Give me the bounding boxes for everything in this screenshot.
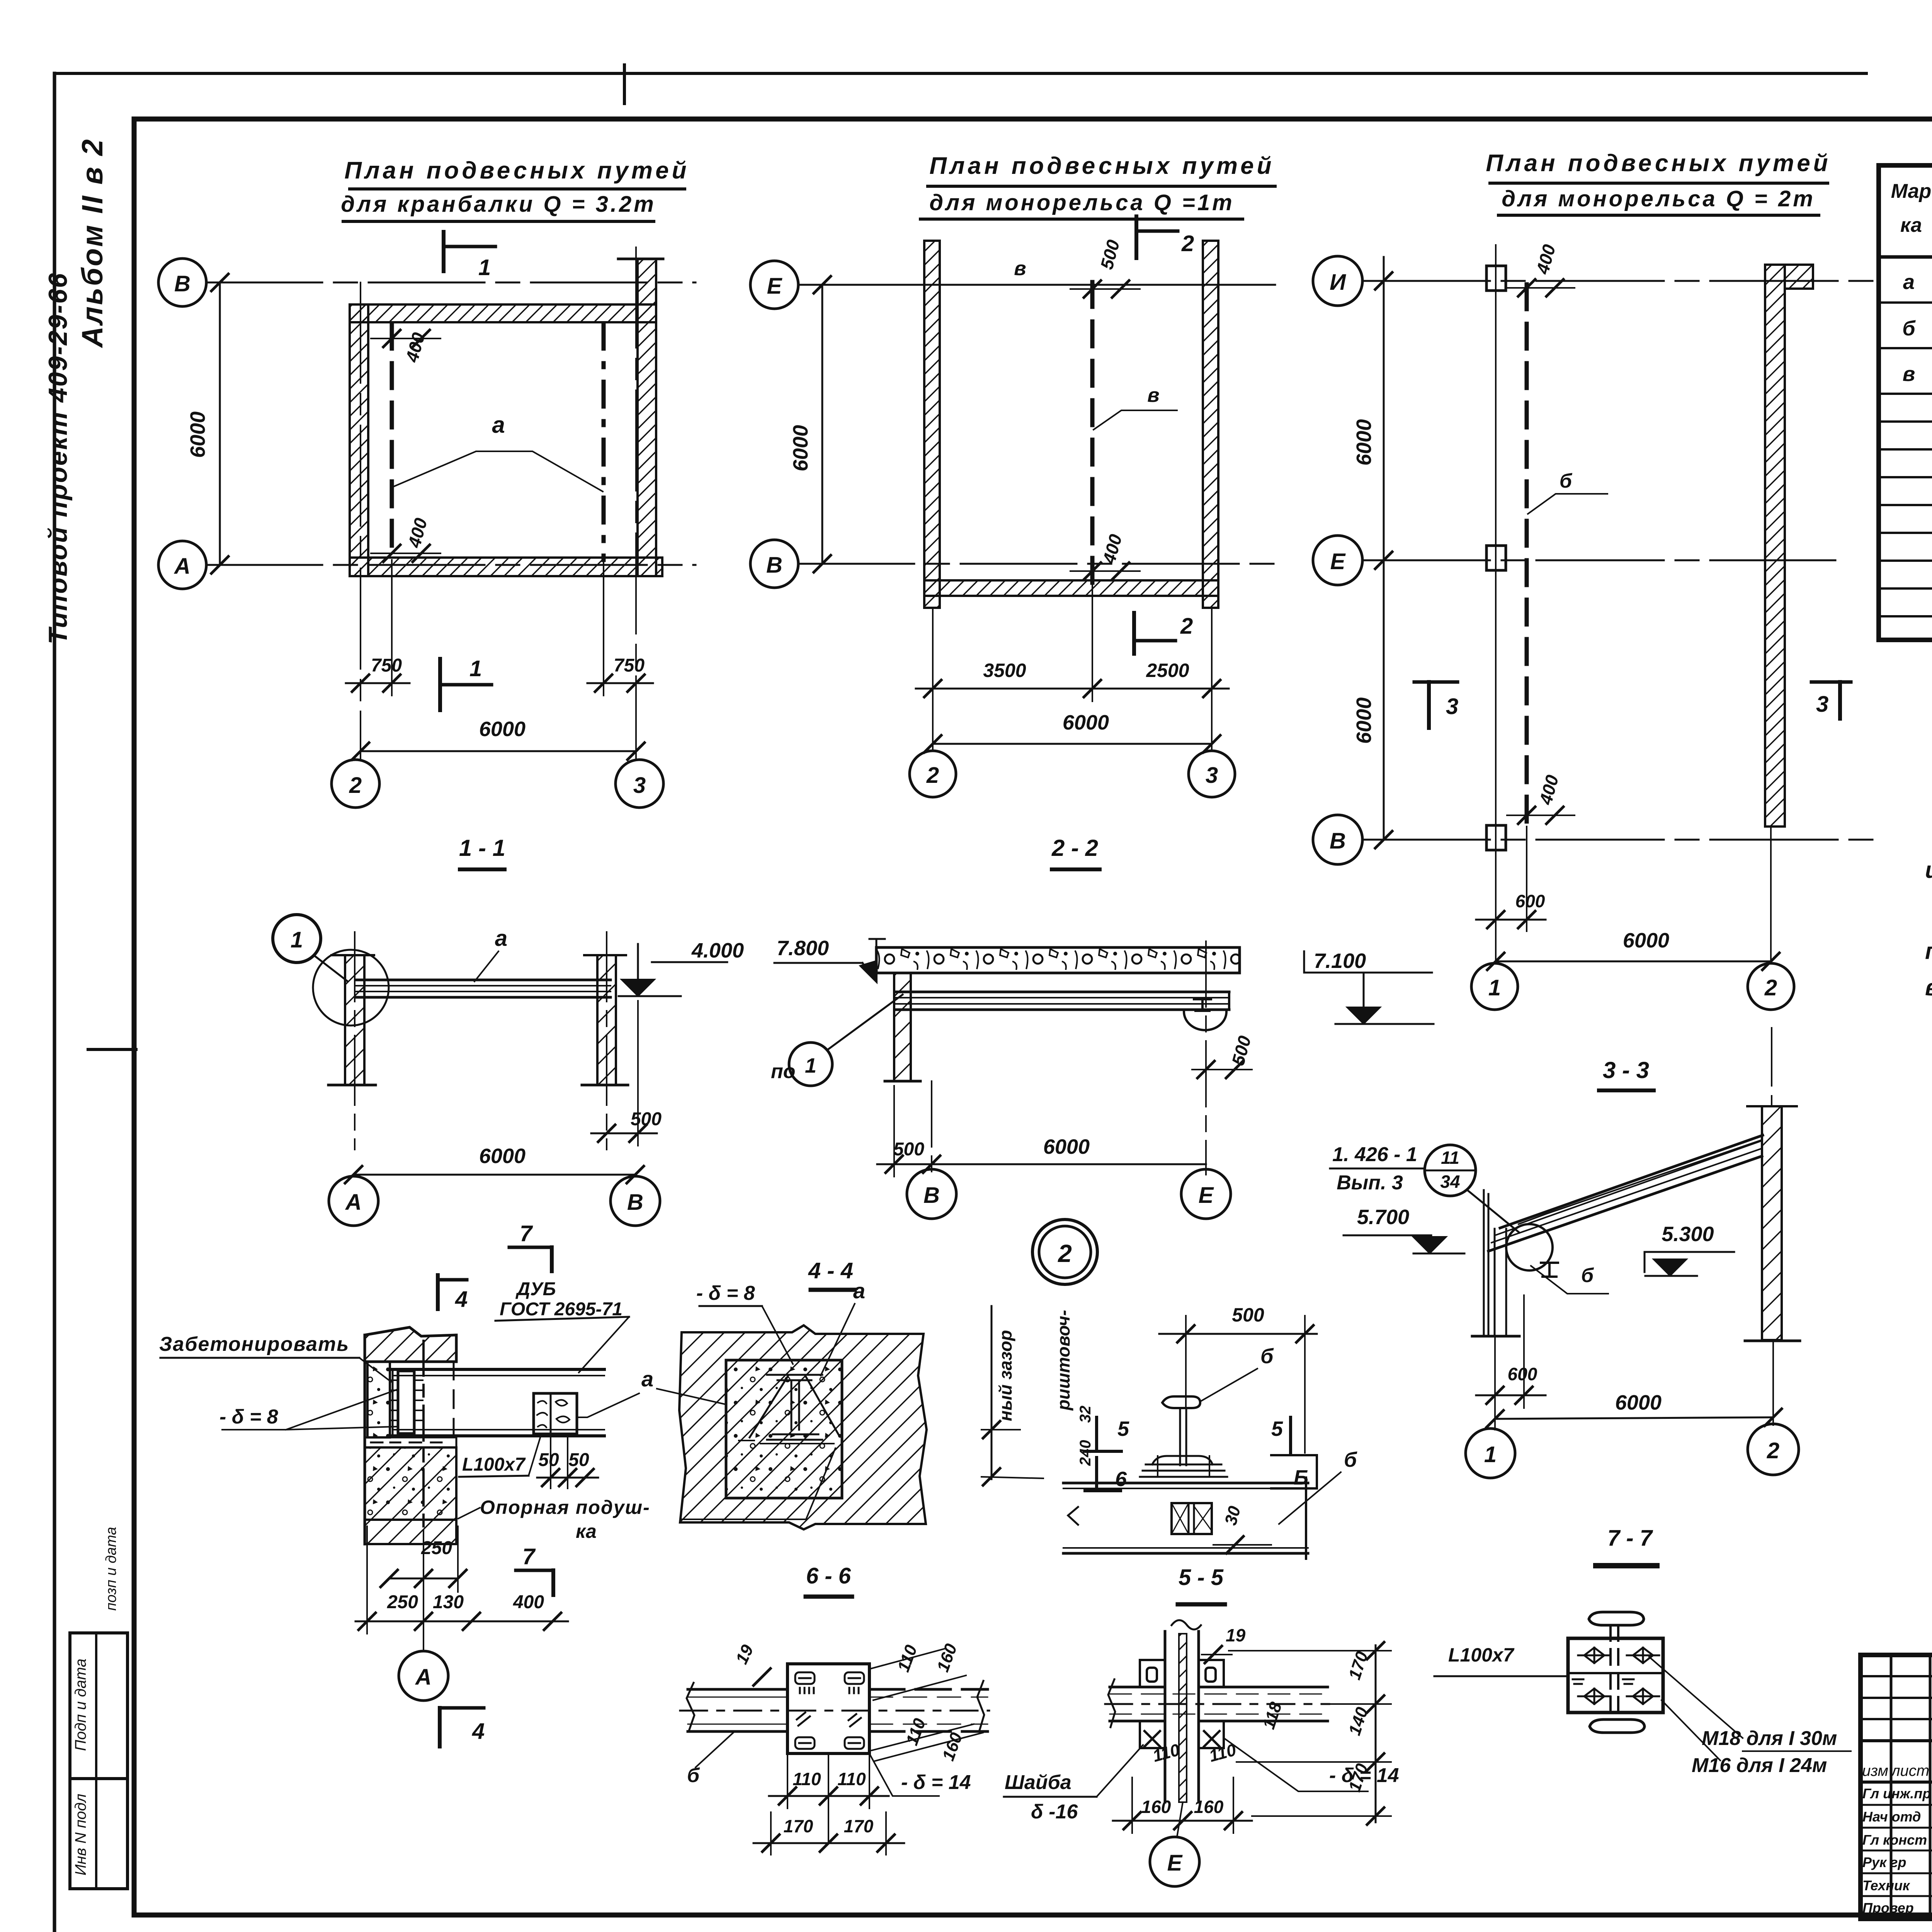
svg-text:2: 2	[349, 773, 362, 798]
svg-text:110: 110	[837, 1769, 866, 1789]
svg-text:2: 2	[1058, 1240, 1072, 1267]
detail 1 section mark 4 bottom	[440, 1706, 484, 1710]
svg-text:Е: Е	[767, 274, 783, 299]
svg-text:6000: 6000	[479, 718, 526, 741]
axis circle E plan 2	[750, 261, 798, 309]
svg-text:5: 5	[1117, 1417, 1129, 1440]
svg-text:Шайба: Шайба	[1005, 1771, 1071, 1794]
svg-text:б: б	[1344, 1448, 1357, 1471]
detail 5-5 bolt square in beam	[1172, 1503, 1212, 1534]
svg-text:А: А	[415, 1665, 432, 1690]
plan 2 left wall	[924, 241, 940, 608]
detail 1 axis circle A	[399, 1651, 448, 1701]
svg-text:План подвесных путей: План подвесных путей	[1486, 150, 1831, 177]
section 2-2 monorail hanger	[1194, 999, 1211, 1011]
svg-text:δ -16: δ -16	[1031, 1801, 1078, 1823]
axis line B plan 2	[798, 563, 1275, 565]
detail 5-5 beam body	[1063, 1482, 1308, 1485]
table header bottom line	[1879, 255, 1932, 259]
axis circle A plan 1	[158, 541, 206, 589]
detail E beam crossing	[1110, 1687, 1328, 1721]
section 1-1 right column	[597, 955, 616, 1085]
detail 4-4 outer hatched block	[679, 1325, 927, 1529]
svg-text:в: в	[1903, 362, 1915, 386]
svg-text:б: б	[1902, 317, 1916, 340]
svg-text:Гл инж.пр: Гл инж.пр	[1862, 1786, 1931, 1801]
svg-text:План подвесных путей: План подвесных путей	[344, 157, 689, 184]
svg-text:б: б	[1260, 1345, 1274, 1368]
axis circle 2 plan 1	[332, 760, 379, 808]
section 2-2 left column	[894, 973, 911, 1081]
margin stamp box: Подп. и дата / Инв N подл	[70, 1633, 128, 1889]
svg-text:и условные обозначения см: и условные обозначения см лист КМ-1.	[1925, 857, 1932, 883]
plan 2 section mark 2 bottom	[1132, 613, 1136, 654]
svg-text:В: В	[174, 271, 190, 296]
svg-text:160: 160	[1194, 1797, 1224, 1817]
svg-text:2: 2	[1181, 231, 1194, 256]
svg-text:Техник: Техник	[1862, 1878, 1910, 1893]
svg-text:для монорельса Q = 2т: для монорельса Q = 2т	[1502, 186, 1815, 211]
svg-text:вып. 3.: вып. 3.	[1925, 975, 1932, 1000]
svg-text:изм: изм	[1862, 1762, 1888, 1779]
svg-text:600: 600	[1508, 1364, 1537, 1384]
svg-text:19: 19	[1226, 1625, 1246, 1645]
svg-text:50: 50	[538, 1450, 559, 1470]
plan 3 section mark 3 right	[1838, 682, 1842, 719]
plan 1 dim row 750 750	[346, 682, 410, 684]
svg-text:3: 3	[1206, 763, 1218, 788]
title block outer	[1861, 1655, 1932, 1919]
detail 4-4 embedded rail	[767, 1375, 822, 1440]
svg-text:250: 250	[387, 1592, 418, 1612]
svg-text:1. 426 - 1: 1. 426 - 1	[1332, 1143, 1417, 1166]
plan 3 section mark 3 left	[1427, 682, 1431, 728]
svg-text:- δ = 8: - δ = 8	[219, 1406, 278, 1428]
svg-text:32: 32	[1077, 1406, 1094, 1423]
plan 2 axis 3 line	[1211, 608, 1213, 751]
svg-text:Альбом II в 2: Альбом II в 2	[76, 138, 109, 349]
axis circle 3 plan 1	[616, 760, 663, 808]
svg-text:риштовоч-: риштовоч-	[1053, 1310, 1073, 1411]
axis circle 3 plan 2	[1189, 751, 1235, 797]
detail 6-6 center line	[680, 1710, 989, 1712]
svg-text:4: 4	[455, 1287, 468, 1312]
detail 4-4 leader from a to embed	[657, 1389, 725, 1404]
detail 1 bottom hatched band	[365, 1520, 456, 1544]
axis circle 2 sec 3-3	[1748, 1424, 1799, 1475]
plan 1 right wall	[638, 259, 656, 576]
svg-text:б: б	[687, 1764, 700, 1787]
section 2-2 beam v	[896, 991, 1229, 993]
svg-text:1: 1	[291, 927, 303, 952]
svg-text:5 - 5: 5 - 5	[1179, 1565, 1224, 1590]
plan 1 left wall	[350, 304, 368, 576]
plan 3 wall	[1765, 265, 1785, 827]
svg-text:а: а	[495, 926, 507, 951]
svg-text:позп и дата: позп и дата	[103, 1527, 119, 1611]
svg-text:а: а	[492, 412, 505, 438]
svg-text:- δ = 14: - δ = 14	[901, 1771, 971, 1794]
svg-text:б: б	[1560, 470, 1573, 492]
svg-text:6000: 6000	[186, 412, 209, 458]
axis circle 2 plan 2	[910, 751, 956, 797]
detail 1 bottom concrete block	[365, 1447, 456, 1520]
title block top small rows	[1861, 1675, 1932, 1677]
section 1-1 node scope circle	[313, 950, 389, 1026]
svg-text:4 - 4: 4 - 4	[808, 1258, 853, 1283]
svg-text:4: 4	[472, 1719, 485, 1744]
axis circle E sec 2-2	[1181, 1169, 1231, 1219]
svg-text:6000: 6000	[1043, 1135, 1090, 1158]
svg-text:Е: Е	[1330, 549, 1346, 574]
svg-text:- δ = 14: - δ = 14	[1329, 1764, 1399, 1787]
plan 3 monorail б dashed	[1525, 284, 1529, 827]
svg-text:3: 3	[633, 773, 646, 798]
svg-text:3: 3	[1816, 692, 1828, 717]
svg-text:ка: ка	[576, 1520, 597, 1542]
detail 5-5 rail cross above	[1162, 1396, 1200, 1408]
plan 3 dim 6000 bottom	[1496, 961, 1771, 963]
section 3-3 left column	[1484, 1190, 1506, 1335]
detail 5-5 support pad stack	[1140, 1464, 1227, 1477]
detail 1 wall top hatched band	[365, 1327, 456, 1362]
svg-text:L100x7: L100x7	[1448, 1644, 1515, 1666]
detail 1 beam end	[393, 1368, 604, 1371]
axis circle B sec 2-2	[907, 1169, 956, 1219]
plan 1 section mark 1 bottom	[438, 659, 442, 710]
svg-text:400: 400	[513, 1592, 544, 1612]
plan 1 bottom wall	[350, 558, 662, 576]
svg-text:2500: 2500	[1146, 660, 1189, 681]
svg-text:В: В	[923, 1183, 940, 1208]
svg-text:ГОСТ 2695-71: ГОСТ 2695-71	[500, 1299, 622, 1320]
svg-text:1: 1	[805, 1054, 816, 1077]
axis line И plan 3	[1362, 280, 1882, 282]
axis circle B plan 2	[750, 540, 798, 588]
detail E right dim chain	[1375, 1645, 1377, 1822]
section 2-2 axis lines	[931, 1081, 932, 1175]
svg-text:В: В	[766, 553, 782, 578]
svg-text:1 - 1: 1 - 1	[459, 835, 505, 861]
svg-text:6000: 6000	[1623, 929, 1669, 952]
section 3-3 callout circle 11/34	[1425, 1145, 1476, 1196]
axis circle A sec 1-1	[329, 1176, 378, 1226]
detail 1 axis dash line	[422, 1341, 425, 1530]
plan 1 axis 2 line	[360, 282, 361, 760]
detail 6-6 oblique dims right	[871, 1648, 983, 1761]
svg-text:3500: 3500	[983, 660, 1026, 681]
svg-text:а: а	[641, 1367, 653, 1391]
svg-text:1: 1	[1488, 975, 1501, 1000]
svg-text:6000: 6000	[1352, 419, 1376, 466]
detail 1 concrete strip left	[367, 1362, 390, 1437]
svg-text:L100x7: L100x7	[462, 1454, 526, 1475]
plan 3 column square row В	[1486, 825, 1506, 850]
plan 1 top wall	[350, 304, 656, 322]
axis circle И plan 3	[1313, 256, 1362, 306]
svg-text:240: 240	[1077, 1440, 1094, 1466]
svg-text:Гл конст: Гл конст	[1862, 1832, 1927, 1848]
svg-text:6: 6	[1115, 1468, 1127, 1491]
table row lines	[1879, 301, 1932, 304]
plan 2 monorail b dashed	[1090, 282, 1095, 583]
section 1-1 detail callout circle 1	[273, 915, 321, 963]
svg-text:План подвесных путей: План подвесных путей	[929, 153, 1274, 179]
plan 1 crane runway beam a (right)	[602, 324, 606, 560]
svg-text:7.100: 7.100	[1314, 949, 1366, 973]
svg-text:Рук гр: Рук гр	[1862, 1854, 1906, 1870]
svg-text:7 - 7: 7 - 7	[1607, 1526, 1653, 1551]
svg-text:600: 600	[1515, 891, 1545, 911]
axis line A plan 1	[206, 564, 696, 566]
plan 3 column line axis 1	[1495, 245, 1497, 961]
section 3-3 right wall	[1762, 1106, 1782, 1340]
svg-text:160: 160	[1141, 1797, 1171, 1817]
detail 1 wall side lines	[364, 1335, 366, 1544]
svg-text:2: 2	[1764, 975, 1777, 1000]
detail 1 anchor plate with studs	[398, 1371, 414, 1434]
svg-text:5.300: 5.300	[1662, 1223, 1714, 1246]
plan 2 vertical dim 6000	[821, 285, 823, 564]
svg-text:2: 2	[1767, 1438, 1779, 1463]
table outer box	[1879, 165, 1932, 640]
plan 1 dim 6000 bottom	[361, 750, 636, 752]
detail 7-7 bolted plates	[1568, 1638, 1663, 1713]
plan 2 right wall	[1203, 241, 1218, 608]
axis circle В plan 3	[1313, 815, 1362, 864]
svg-text:500: 500	[1232, 1304, 1264, 1326]
svg-text:6000: 6000	[1615, 1391, 1662, 1414]
section 3-3 bracket beam sloped	[1488, 1156, 1762, 1251]
svg-text:4.000: 4.000	[691, 939, 744, 962]
svg-text:5.700: 5.700	[1357, 1206, 1409, 1229]
svg-text:750: 750	[371, 655, 402, 676]
svg-text:- δ = 8: - δ = 8	[696, 1282, 755, 1304]
svg-text:7.800: 7.800	[777, 937, 829, 960]
svg-text:И: И	[1330, 270, 1346, 295]
plan 2 axis 2 line	[932, 608, 934, 751]
svg-text:для монорельса Q =1т: для монорельса Q =1т	[929, 190, 1234, 215]
svg-text:М18 для I 30м: М18 для I 30м	[1702, 1727, 1837, 1750]
section 2-2 roof slab	[876, 947, 1240, 973]
svg-text:в: в	[1014, 257, 1026, 280]
svg-text:Мар: Мар	[1891, 180, 1932, 202]
svg-text:170: 170	[844, 1816, 874, 1836]
detail 1 mortar joint strip	[365, 1437, 456, 1447]
title block staff rows	[1861, 1804, 1932, 1806]
detail 6-6 beam left	[688, 1689, 787, 1731]
svg-text:6000: 6000	[479, 1145, 526, 1168]
plan 2 dim 6000 bottom	[933, 743, 1212, 745]
plan 2 bottom wall	[924, 580, 1218, 596]
svg-text:1: 1	[469, 656, 482, 681]
svg-text:для кранбалки Q = 3.2т: для кранбалки Q = 3.2т	[341, 192, 656, 217]
svg-text:2: 2	[1180, 614, 1193, 639]
svg-text:А: А	[345, 1190, 362, 1215]
svg-text:3 - 3: 3 - 3	[1603, 1057, 1649, 1083]
svg-text:1: 1	[478, 255, 491, 280]
svg-text:6000: 6000	[789, 425, 812, 471]
node callout circle 2	[1032, 1219, 1097, 1284]
detail E wall strip	[1165, 1631, 1199, 1802]
plan 1 vertical dim 6000	[219, 282, 221, 565]
svg-text:6000: 6000	[1063, 711, 1109, 734]
detail 1 section mark 4 top	[436, 1275, 440, 1309]
detail 6-6 bolts	[795, 1672, 864, 1749]
svg-text:110: 110	[793, 1769, 821, 1789]
svg-text:в: в	[1147, 384, 1159, 406]
svg-text:Подп и дата: Подп и дата	[72, 1658, 89, 1751]
svg-text:а: а	[1903, 270, 1915, 294]
svg-text:путей см. пояснительную зап: путей см. пояснительную записку серии 1 …	[1925, 938, 1932, 964]
axis line Е plan 3	[1362, 560, 1835, 561]
svg-text:Е: Е	[1167, 1850, 1183, 1876]
svg-text:3: 3	[1446, 694, 1458, 719]
title block row изм лист	[1861, 1781, 1932, 1784]
svg-text:В: В	[627, 1190, 643, 1215]
svg-text:750: 750	[614, 655, 645, 676]
svg-text:Вып. 3: Вып. 3	[1337, 1172, 1403, 1194]
svg-text:ка: ка	[1900, 214, 1922, 236]
section 2-2 slab left cap	[869, 939, 885, 978]
svg-text:М16 для I 24м: М16 для I 24м	[1692, 1754, 1827, 1777]
svg-text:11: 11	[1441, 1148, 1459, 1168]
svg-text:ный зазор: ный зазор	[995, 1330, 1015, 1421]
detail 7-7 leaders to bolts	[1649, 1657, 1743, 1760]
detail 6-6 beam right dashed	[869, 1689, 988, 1731]
detail E axis circle E	[1150, 1837, 1199, 1886]
detail 6-6 splice plate	[787, 1664, 869, 1753]
axis circle B plan 1	[158, 259, 206, 306]
centering mark left border	[88, 1048, 136, 1051]
svg-text:34: 34	[1440, 1172, 1460, 1192]
svg-text:170: 170	[784, 1816, 813, 1836]
axis circle 1 sec 3-3	[1466, 1429, 1515, 1478]
detail E bolt plates	[1140, 1660, 1224, 1748]
detail 4-4 inner concrete	[726, 1360, 842, 1498]
plan 3 column square row Е	[1486, 546, 1506, 570]
axis circle B sec 1-1	[611, 1176, 660, 1226]
plan 2 section mark 2 top	[1134, 216, 1138, 258]
svg-text:В: В	[1330, 828, 1346, 854]
title block left columns	[1890, 1655, 1893, 1919]
svg-text:б: б	[1581, 1264, 1594, 1287]
svg-text:Забетонировать: Забетонировать	[159, 1333, 349, 1355]
svg-text:50: 50	[568, 1450, 589, 1470]
svg-text:лист: лист	[1891, 1762, 1929, 1779]
svg-text:а: а	[853, 1279, 865, 1303]
svg-text:1: 1	[1484, 1442, 1497, 1467]
axis line B plan 1	[206, 282, 696, 284]
svg-text:Е: Е	[1199, 1183, 1214, 1208]
svg-text:Опорная подуш-: Опорная подуш-	[480, 1497, 650, 1518]
plan 1 crane runway beam a (left)	[390, 324, 394, 560]
section 3-3 hanger node circle	[1506, 1224, 1553, 1270]
svg-text:250: 250	[421, 1538, 452, 1558]
centering mark top border	[623, 65, 626, 104]
svg-text:6000: 6000	[1352, 697, 1376, 744]
plan 2 dim row 3500 2500	[916, 688, 1229, 690]
plan 3 vertical dim line	[1383, 257, 1385, 840]
axis line E plan 2	[798, 284, 1275, 286]
detail 7-7 rail I-beam	[1589, 1612, 1644, 1625]
axis circle 1 plan 3	[1471, 963, 1518, 1010]
plan 1 section mark 1 top	[442, 232, 446, 271]
svg-text:7: 7	[522, 1544, 536, 1569]
svg-text:ДУБ: ДУБ	[515, 1279, 556, 1299]
svg-text:130: 130	[433, 1592, 464, 1612]
svg-text:500: 500	[893, 1139, 924, 1160]
detail 1 bolt plate square	[534, 1393, 577, 1434]
svg-text:5: 5	[1271, 1417, 1283, 1440]
plan 1 axis 3 line	[635, 247, 637, 760]
axis circle 2 plan 3	[1748, 963, 1794, 1010]
svg-text:Инв N подл: Инв N подл	[72, 1794, 89, 1876]
axis circle Е plan 3	[1313, 536, 1362, 585]
svg-text:2: 2	[926, 763, 939, 788]
svg-text:7: 7	[520, 1221, 533, 1246]
svg-text:6 - 6: 6 - 6	[806, 1563, 851, 1588]
section 1-1 beam a	[355, 979, 611, 981]
section 1-1 column axes	[354, 932, 355, 1150]
svg-text:2 - 2: 2 - 2	[1051, 835, 1098, 861]
svg-text:Нач отд: Нач отд	[1862, 1809, 1921, 1825]
svg-text:Типовой проект 409-29-66: Типовой проект 409-29-66	[43, 272, 73, 644]
section 1-1 left column	[345, 955, 364, 1085]
svg-text:А: А	[173, 554, 190, 579]
plan 3 column square row И	[1486, 266, 1506, 291]
svg-text:Провер: Провер	[1862, 1900, 1914, 1916]
axis line В plan 3	[1362, 839, 1882, 841]
